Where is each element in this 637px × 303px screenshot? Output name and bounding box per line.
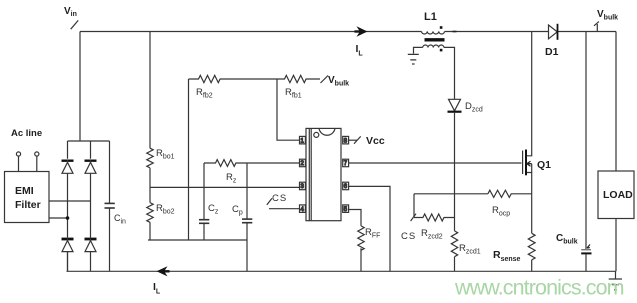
- resistor Rzcd1: [451, 231, 457, 271]
- wire pin6 to bottom rail: [349, 186, 390, 271]
- svg-text:CS: CS: [272, 193, 287, 204]
- wire CS stub right: [413, 194, 415, 218]
- wire EMI to bridge right branch: [49, 200, 91, 202]
- diode Dzcd: [449, 99, 461, 111]
- capacitor Cbulk: [581, 249, 591, 251]
- pin 8: [343, 136, 349, 144]
- capacitor Cz: [203, 163, 205, 219]
- pin 5: [343, 205, 349, 213]
- resistor Rbo2: [147, 187, 153, 240]
- wire Vin vertical: [79, 32, 81, 142]
- wire feedback left vertical: [188, 79, 190, 240]
- wire Rbo junction to pin3: [150, 186, 300, 188]
- LOAD box: [598, 171, 634, 219]
- wire L1 secondary right lead: [444, 47, 455, 99]
- svg-text:EMI: EMI: [15, 185, 34, 197]
- wire pin7 to Q1 gate: [349, 162, 522, 164]
- resistor Rsense: [528, 233, 535, 271]
- op-amp U1 pin1 dot: [314, 132, 319, 137]
- wire top rail right segment: [558, 31, 617, 33]
- svg-text:CS: CS: [401, 231, 416, 242]
- resistor Rzcd2: [414, 214, 455, 221]
- pin 3: [300, 182, 306, 190]
- pin 6: [343, 182, 349, 190]
- svg-text:D1: D1: [545, 46, 559, 58]
- resistor Rfb2: [189, 75, 278, 82]
- svg-text:Ac line: Ac line: [11, 128, 42, 139]
- wire feedback junction to pin1: [277, 79, 300, 140]
- pin 4: [300, 205, 306, 213]
- wire IL arrow top: [357, 26, 368, 36]
- wire zcd vertical to Rzcd1: [454, 194, 456, 231]
- wire bridge top: [68, 140, 110, 142]
- inductor L1 primary winding: [422, 32, 445, 35]
- wire Cp to bottom rail: [246, 240, 248, 271]
- small dash on wire after L1: [453, 31, 457, 33]
- pin 7: [343, 159, 349, 167]
- resistor Rz and wire to pin2: [204, 160, 300, 167]
- wire LOAD vertical top: [615, 32, 617, 172]
- diode D1: [549, 25, 558, 39]
- resistor RFF: [358, 226, 364, 271]
- arrow IL bottom: [157, 266, 168, 276]
- ground L1 secondary: [408, 54, 419, 64]
- wire L1 secondary left lead: [414, 47, 423, 53]
- EMI filter box: [5, 172, 50, 223]
- wire Rocp rail: [414, 193, 488, 195]
- op-amp U1 notch: [319, 128, 335, 135]
- capacitor Cp: [246, 163, 248, 219]
- pin 2: [300, 159, 306, 167]
- wire bottom rail: [67, 270, 616, 272]
- wire top rail left segment: [80, 31, 422, 33]
- svg-text:L1: L1: [424, 11, 437, 23]
- svg-text:www.cntronics.com: www.cntronics.com: [454, 276, 624, 300]
- node Vin tick: [71, 20, 79, 29]
- capacitor Cin: [109, 141, 111, 203]
- resistor Rbo1: [147, 32, 153, 188]
- svg-text:Filter: Filter: [15, 199, 41, 211]
- inductor L1 secondary winding: [423, 45, 444, 47]
- diode bridge bottom-right: [85, 241, 96, 252]
- wire EMI to bridge left branch: [49, 217, 68, 219]
- wire bridge bottom left lead: [67, 252, 69, 271]
- op-amp U1 IC body: [306, 128, 341, 220]
- wire LOAD vertical bottom: [615, 219, 617, 272]
- capacitor Cbulk polarity arrow: [587, 245, 590, 249]
- resistor Rocp: [488, 190, 532, 197]
- wire pin8 Vcc stub: [349, 139, 358, 141]
- diode bridge top-right: [85, 162, 96, 173]
- node Vbulk right tick: [594, 22, 599, 32]
- wire bridge left branch: [67, 141, 69, 271]
- ground main right: [609, 271, 622, 290]
- terminal Ac line left: [16, 152, 20, 156]
- wire pin5 to RFF: [349, 210, 361, 226]
- node CS tick left: [267, 198, 272, 205]
- node Vcc tick: [354, 136, 361, 143]
- wire Cbulk vertical: [585, 32, 587, 250]
- junction dot left branch: [66, 216, 70, 220]
- transistor Q1: [522, 151, 524, 175]
- inductor L1 polarity dot secondary: [440, 49, 443, 52]
- inductor L1 polarity dot primary: [440, 26, 443, 29]
- inductor L1 core: [425, 38, 445, 41]
- svg-text:Q1: Q1: [537, 159, 551, 171]
- node Vbulk mid tick: [321, 76, 329, 84]
- wire pin4 CS stub: [269, 208, 300, 210]
- resistor Rfb1: [277, 75, 320, 82]
- svg-text:LOAD: LOAD: [603, 189, 633, 201]
- pin 1: [300, 136, 306, 144]
- terminal Ac line right: [35, 152, 39, 156]
- wire Q1 source down: [531, 173, 533, 234]
- wire sub-bottom compensation rail: [148, 239, 247, 241]
- svg-text:Vcc: Vcc: [366, 135, 385, 147]
- wire bridge right branch: [90, 141, 92, 271]
- node CS tick right: [411, 214, 416, 221]
- wire top rail middle segment: [445, 31, 549, 33]
- diode bridge bottom-left: [62, 241, 73, 252]
- diode bridge top-left: [62, 162, 73, 173]
